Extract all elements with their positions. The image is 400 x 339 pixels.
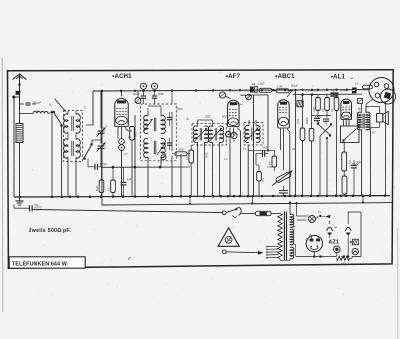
dial lamp 2 — [352, 248, 358, 254]
IF2 drops — [197, 142, 199, 197]
svg-text:0.5µF: 0.5µF — [305, 90, 312, 93]
resistor R10 — [300, 128, 305, 141]
mains switch — [226, 209, 236, 212]
junction dot ground bus 12 — [171, 195, 174, 198]
junction dot HT bus 10 — [252, 89, 254, 91]
resistor R2 pill — [175, 152, 187, 156]
wire fuse to transformer — [271, 213, 280, 215]
ABC1 leads — [280, 129, 282, 151]
wire x135 drop — [134, 115, 136, 197]
junction dot ground bus 5 — [89, 195, 92, 198]
bandfilter box IF2 — [192, 123, 226, 145]
pilot lamp — [309, 216, 316, 223]
resistor R6 pill — [276, 89, 289, 93]
capacitor C8 — [279, 190, 288, 192]
IF2 core 2 — [214, 128, 216, 141]
svg-text:0.5: 0.5 — [124, 153, 128, 156]
trimmer T5 — [231, 132, 237, 138]
ground symbol main — [19, 197, 21, 201]
junction dot ground bus 8 — [122, 195, 125, 198]
tube AF7 — [228, 100, 240, 126]
dark cap marks top right — [352, 88, 357, 90]
wire plug feed — [368, 89, 369, 91]
junction dot ground bus 31 — [326, 195, 329, 198]
resistor R11 — [309, 129, 314, 142]
switch S2 band — [84, 144, 92, 158]
junction dot HT bus 11 — [261, 89, 263, 91]
svg-text:0.1: 0.1 — [322, 90, 326, 93]
junction dot ground bus 34 — [345, 195, 348, 198]
BF1 core 1 — [71, 116, 73, 131]
junction dot ground bus 7 — [112, 195, 115, 198]
wire det hline — [248, 149, 274, 151]
tube AL1 — [341, 99, 352, 119]
wire antenna ground drop — [13, 97, 15, 197]
svg-text:0.1: 0.1 — [36, 110, 40, 113]
stub 363 — [362, 196, 364, 202]
IF2 coil 1a — [193, 126, 197, 142]
wire mains 2 — [226, 251, 257, 254]
wire dc bottom — [296, 256, 337, 258]
svg-text:5000: 5000 — [205, 116, 211, 119]
capacitor C11 — [323, 118, 329, 120]
resistor R8 — [272, 156, 277, 167]
capacitor C12 — [351, 165, 357, 167]
IF1 coil 1b — [144, 138, 148, 157]
wire heater 1 — [297, 215, 309, 217]
switch S4 — [320, 125, 331, 136]
wire OT bottom drop — [361, 130, 363, 197]
electrolytic E2 — [345, 227, 351, 231]
svg-text:0.2: 0.2 — [355, 83, 359, 86]
junction dot ground bus 38 — [384, 194, 387, 197]
svg-text:0.1: 0.1 — [128, 136, 132, 139]
svg-text:0.1: 0.1 — [107, 187, 110, 191]
wire BF1 bottoms — [67, 158, 69, 197]
wire C5 — [123, 167, 125, 182]
svg-text:0.1M: 0.1M — [297, 119, 300, 124]
bandfilter box BF1 — [64, 111, 83, 162]
BF1 core 2 — [71, 141, 73, 156]
trimmer T1 — [140, 83, 146, 89]
capacitor C5 — [121, 182, 127, 184]
junction dot ground bus 4 — [77, 196, 80, 199]
svg-text:0.1µF: 0.1µF — [100, 162, 107, 166]
bandfilter box IF3 — [244, 123, 263, 146]
svg-text:0.5: 0.5 — [269, 161, 272, 165]
IF1 trim arrow 1 — [144, 119, 153, 131]
BF1 coil 2a — [64, 139, 68, 158]
wire if1 drop — [171, 112, 173, 151]
svg-text:5µ: 5µ — [49, 104, 52, 107]
junction dot HT bus 6 — [195, 89, 197, 91]
wire dc right — [350, 257, 353, 259]
junction dot ground bus 35 — [352, 194, 355, 197]
svg-text:1µF: 1µF — [127, 177, 132, 181]
wire OT top — [361, 104, 363, 113]
wire gang feed — [92, 139, 101, 141]
svg-text:5000: 5000 — [177, 108, 183, 111]
junction dot ground bus 9 — [134, 195, 137, 198]
resistor R12 — [316, 98, 321, 111]
wire L2 to ground bus — [19, 143, 21, 197]
IF2 trim arrow 1 — [195, 128, 208, 141]
svg-text:•ABC1: •ABC1 — [275, 74, 295, 80]
junction dot ground bus 27 — [294, 195, 297, 198]
page edge right — [397, 228, 399, 339]
resistor R4 — [111, 180, 116, 193]
svg-text:AZ1: AZ1 — [329, 239, 339, 245]
IF1 coil 2b — [161, 138, 165, 157]
svg-text:ω: ω — [351, 76, 354, 80]
trimmer T3 osc — [135, 98, 141, 104]
switch S1 band — [48, 112, 54, 114]
wire x52 drop — [51, 112, 53, 197]
BF1 coil 1b — [76, 114, 80, 133]
capacitor C3 screen — [141, 95, 146, 97]
tuning gang C1 — [98, 130, 105, 132]
wire pad link — [88, 166, 95, 168]
mains terminal 1 — [222, 211, 226, 215]
svg-text:•AF7: •AF7 — [226, 74, 241, 80]
IF1 cap 2 — [167, 142, 172, 144]
wire padder down — [121, 151, 123, 197]
junction dot HT bus 19 — [335, 89, 337, 91]
junction dot ground bus 24 — [272, 195, 275, 198]
svg-text:5000: 5000 — [244, 90, 250, 93]
svg-text:EL: EL — [252, 82, 256, 86]
junction dot HT bus 5 — [171, 89, 173, 91]
connector ring — [161, 155, 166, 160]
tuning arrow box1 — [55, 99, 66, 112]
svg-text:0.1: 0.1 — [331, 90, 335, 93]
wire e2 bottom — [347, 239, 349, 257]
junction dot HT bus 0 — [101, 90, 103, 92]
wire heater bus — [102, 203, 392, 205]
wire mains lead upper — [37, 210, 223, 213]
svg-text:0.3M: 0.3M — [267, 166, 273, 169]
resistor R5 pill — [259, 88, 272, 92]
svg-text:4µ: 4µ — [334, 225, 337, 229]
padder P1 — [119, 139, 125, 145]
IF1 wires — [147, 108, 149, 116]
resistor R3 — [99, 180, 104, 193]
electrolytic E1 — [327, 227, 333, 231]
junction dot ground bus 3 — [69, 196, 72, 199]
IF1 trim arrow 2 — [157, 143, 166, 155]
ACH1 lead c — [125, 127, 128, 131]
IF1 core — [153, 118, 155, 131]
schematic border frame — [8, 70, 394, 269]
wire x302 drop — [302, 95, 304, 128]
wire ground bus — [14, 196, 390, 197]
junction dot ground bus 36 — [362, 194, 365, 197]
heater arrow — [325, 215, 331, 218]
svg-text:1M: 1M — [322, 109, 325, 112]
junction dot HT bus 8 — [229, 89, 231, 91]
junction dot HT bus 21 — [355, 88, 357, 90]
wire prim bottom — [279, 259, 281, 261]
connector ring 2 — [226, 132, 231, 137]
squiggle c — [129, 258, 131, 261]
junction dot ground bus 30 — [317, 195, 320, 198]
svg-text:50n: 50n — [35, 203, 40, 207]
svg-text:0.3M: 0.3M — [277, 86, 283, 89]
output transformer — [357, 112, 361, 130]
junction dot HT bus 13 — [284, 89, 286, 91]
wire ant cap link — [20, 103, 25, 105]
svg-text:G: G — [84, 107, 86, 110]
ACH1 lead b — [121, 127, 123, 139]
junction dot ground bus 20 — [239, 195, 242, 198]
wire ABC1 diag — [287, 90, 293, 98]
svg-text:5000: 5000 — [222, 116, 228, 119]
transformer secondary 1 — [290, 214, 294, 227]
junction dot ground bus 37 — [369, 194, 372, 197]
svg-text:0.2: 0.2 — [372, 131, 376, 134]
junction dot ground bus 15 — [203, 195, 206, 198]
antenna symbol — [13, 74, 27, 80]
wire top HT bus — [93, 90, 368, 91]
junction dot HT bus 2 — [134, 90, 136, 92]
capacitor ant trimmer — [26, 102, 31, 104]
junction dot HT bus 7 — [212, 89, 214, 91]
wire lower h link — [101, 166, 190, 168]
svg-text:50: 50 — [186, 118, 189, 121]
svg-text:30µ: 30µ — [357, 160, 362, 164]
tuning gang C2 — [98, 145, 105, 147]
svg-text:5000: 5000 — [96, 185, 99, 191]
IF2 trim arrow 2 — [210, 128, 223, 141]
svg-text:4V: 4V — [318, 210, 321, 214]
transformer secondary 2 — [290, 229, 294, 245]
wire al1 links — [344, 159, 354, 161]
capacitor C7 — [262, 150, 264, 157]
trimmer T4 — [246, 94, 252, 100]
coil L1 antenna — [33, 112, 48, 114]
svg-text:0.1: 0.1 — [134, 134, 138, 138]
junction dot ground bus 16 — [212, 195, 215, 198]
IF1 coil 2a — [161, 115, 165, 133]
wire az1 down — [313, 252, 315, 257]
dial lamp — [334, 246, 341, 253]
capacitor pad 0.1 — [94, 164, 96, 170]
wire sec stubs — [290, 226, 296, 228]
junction dot ground bus 21 — [247, 195, 250, 198]
antenna terminal — [12, 96, 15, 99]
IF2 coil 2b — [220, 126, 224, 142]
svg-text:Jweils 500Ω pF.: Jweils 500Ω pF. — [29, 228, 72, 234]
svg-text:TELEFUNKEN 644 W.: TELEFUNKEN 644 W. — [12, 261, 69, 267]
resistor pill top right — [363, 85, 373, 89]
svg-text:0.5µF: 0.5µF — [341, 89, 348, 92]
svg-text:0.1: 0.1 — [243, 148, 247, 151]
junction dot ground bus 25 — [284, 195, 287, 198]
junction dot ground bus 17 — [220, 195, 223, 198]
wire gang drops — [100, 91, 102, 129]
wire plug diag — [366, 100, 373, 105]
junction dot ground bus 32 — [335, 195, 338, 198]
junction dot HT bus 9 — [239, 89, 241, 91]
junction dot HT bus 16 — [311, 89, 313, 91]
ACH1 lead a — [117, 127, 119, 139]
junction dot ground bus 22 — [252, 195, 255, 198]
stub 252 — [251, 197, 253, 204]
svg-text:50µµ: 50µµ — [237, 103, 243, 106]
junction dot HT bus 1 — [120, 90, 122, 92]
tube ABC1 — [278, 100, 290, 128]
IF3 coil b — [256, 126, 260, 143]
junction dot ground bus 6 — [100, 195, 103, 198]
AL1 lower box — [341, 126, 360, 143]
bandfilter box IF1 — [141, 104, 177, 161]
coil L2 iron core — [16, 124, 23, 143]
IF1 coil 1a — [144, 115, 148, 133]
junction dot HT bus 15 — [301, 89, 303, 91]
power box right — [360, 212, 362, 256]
junction dot ground bus 1 — [51, 196, 54, 199]
IF3 core — [251, 128, 253, 141]
junction dot ground bus 14 — [189, 195, 192, 198]
wire x102 drop — [101, 91, 103, 205]
wire avc left — [92, 91, 94, 125]
svg-text:5000: 5000 — [133, 92, 139, 96]
svg-text:88: 88 — [358, 108, 361, 111]
svg-text:5000: 5000 — [205, 153, 208, 159]
junction dot ground bus 10 — [147, 195, 150, 198]
title box — [9, 257, 85, 268]
grid cap AF7 — [219, 92, 225, 98]
wire BF1 tops — [67, 111, 69, 115]
rectifier AZ1 — [306, 235, 322, 251]
scan speckle texture — [253, 65, 256, 68]
svg-text:5000: 5000 — [263, 147, 269, 150]
svg-text:0.5µF: 0.5µF — [258, 83, 265, 86]
wire x181 drop — [180, 154, 182, 197]
svg-text:•ACH1: •ACH1 — [112, 74, 132, 80]
junction dot ground bus 13 — [180, 195, 183, 198]
transformer primary — [278, 214, 283, 259]
svg-text:50µµF: 50µµF — [291, 85, 299, 88]
junction dot HT bus 20 — [346, 89, 348, 91]
svg-text:•AL1: •AL1 — [331, 75, 346, 81]
wire R4 — [112, 167, 114, 180]
junction dot ground bus 2 — [61, 196, 64, 199]
junction dot ground bus 28 — [301, 195, 304, 198]
IF2 core 1 — [199, 128, 201, 141]
svg-text:500V: 500V — [35, 208, 41, 212]
capacitor mains block — [29, 205, 31, 211]
speaker — [377, 114, 383, 122]
IF2 coil 2a — [208, 126, 212, 142]
wire x311 drop — [311, 95, 313, 129]
IF2 wires top — [197, 120, 199, 127]
speaker wires — [366, 106, 380, 108]
resistor R15 — [342, 152, 347, 171]
junction dot HT bus 18 — [326, 89, 328, 91]
transformer core — [283, 212, 285, 261]
junction dot ground bus 18 — [227, 195, 230, 198]
resistor R16 — [342, 176, 347, 194]
speaker plug — [369, 78, 394, 103]
svg-text:100: 100 — [341, 263, 346, 266]
junction dot ground bus 26 — [289, 195, 292, 198]
resistor R7 — [189, 150, 194, 163]
wire heater 2 — [297, 219, 307, 221]
mains terminal 2 — [222, 250, 226, 254]
svg-text:2M: 2M — [292, 148, 295, 151]
tube ACH1 — [115, 99, 129, 127]
wire R3 — [101, 167, 103, 180]
component EL box — [250, 87, 254, 93]
svg-text:4: 4 — [106, 125, 108, 128]
potentiometer VR1 — [275, 171, 291, 183]
IF2 coil 1b — [205, 126, 209, 142]
IF3 trim arrow — [246, 128, 259, 142]
warning triangle — [218, 228, 239, 247]
junction dot HT bus 14 — [294, 89, 296, 91]
junction dot ground bus 23 — [261, 195, 264, 198]
resistor R14 — [334, 98, 339, 111]
antenna junction dots — [18, 83, 20, 85]
wire AF7 top — [231, 97, 234, 100]
capacitor C4 screen — [152, 95, 157, 97]
svg-text:0.3M: 0.3M — [313, 107, 316, 112]
wire x320 drop — [319, 136, 321, 197]
resistor zigzag R17 — [337, 256, 350, 260]
junction dot ground bus 33 — [340, 195, 343, 198]
svg-text:3000: 3000 — [178, 148, 184, 152]
BF1 coil 1a — [64, 114, 68, 133]
wire y95 bus — [241, 94, 269, 96]
small caps left of AL1 — [331, 92, 339, 94]
svg-text:5000: 5000 — [158, 92, 164, 96]
wire det links — [255, 154, 257, 166]
padder P2 — [119, 145, 125, 151]
resistor R13 — [325, 98, 330, 111]
transformer taps — [268, 245, 279, 247]
trimmer T2 — [151, 83, 157, 89]
junction dot HT bus 12 — [272, 89, 274, 91]
fuse F1 — [256, 211, 272, 215]
svg-text:0.3: 0.3 — [348, 160, 351, 164]
AF7 leads — [229, 128, 231, 197]
wire switch S1 drop — [61, 126, 63, 197]
junction dot ground bus 0 — [19, 196, 22, 199]
svg-text:1: 1 — [296, 97, 298, 100]
resistor R1 — [130, 127, 135, 141]
junction dot ground bus 19 — [233, 195, 236, 198]
junction dot ground bus 29 — [310, 195, 313, 198]
svg-text:50000: 50000 — [306, 117, 309, 124]
wire ACH1 grid top — [121, 91, 123, 97]
wire x327 drop2 — [326, 138, 328, 197]
resistor R9 — [257, 172, 262, 182]
IF3 coil a — [245, 126, 249, 143]
svg-text:0.1: 0.1 — [232, 90, 236, 93]
component box E2b — [352, 239, 358, 245]
wire switch to fuse — [241, 213, 256, 215]
junction dot ground bus 11 — [159, 195, 162, 198]
wire sec top — [289, 203, 291, 215]
wire x295 drop — [295, 91, 297, 197]
svg-text:0.3: 0.3 — [186, 156, 189, 160]
switch S3 — [318, 124, 330, 135]
svg-text:0.2: 0.2 — [224, 158, 228, 161]
antenna series capacitor — [16, 91, 20, 95]
stub 190 — [189, 197, 191, 204]
junction dot HT bus 17 — [317, 89, 319, 91]
